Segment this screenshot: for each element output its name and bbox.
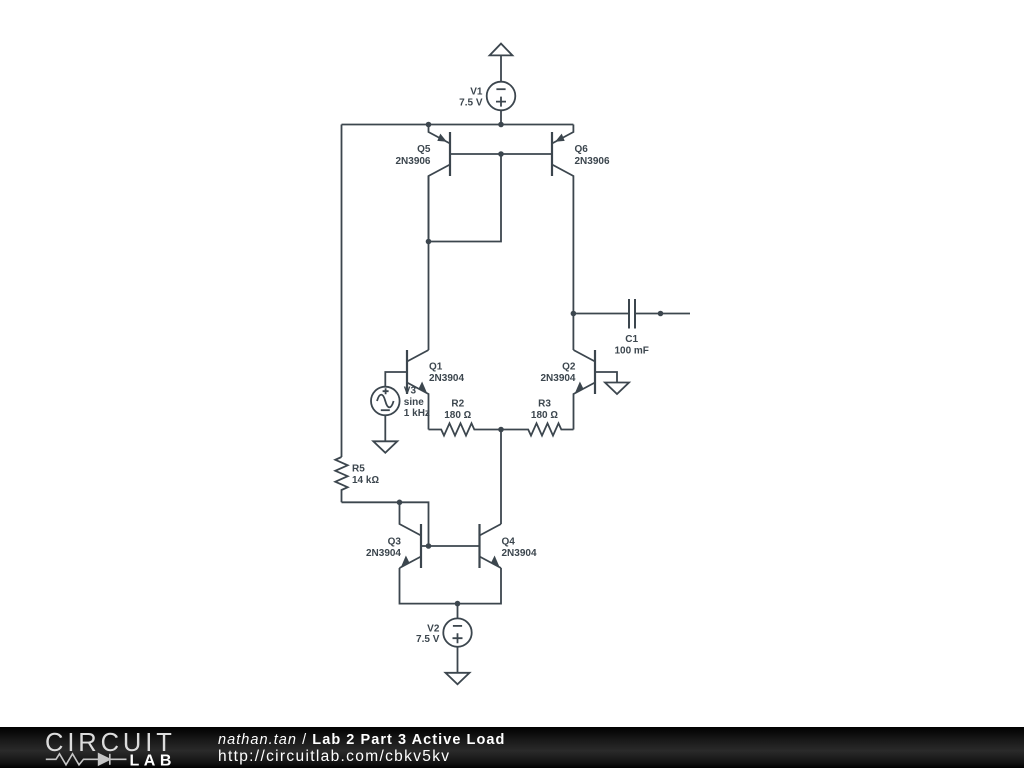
svg-text:2N3904: 2N3904: [366, 548, 401, 559]
svg-text:V1: V1: [470, 87, 483, 98]
transistor Q2: [574, 350, 596, 430]
svg-text:Q3: Q3: [388, 536, 402, 547]
svg-text:sine: sine: [404, 397, 424, 408]
svg-text:2N3904: 2N3904: [502, 548, 537, 559]
wire mirror emitters: [400, 568, 502, 604]
footer url text: [218, 748, 450, 766]
svg-text:R5: R5: [352, 464, 365, 475]
svg-text:100 mF: 100 mF: [614, 345, 648, 356]
wire Q3 base to Q4 base: [421, 545, 480, 547]
node output terminal: [658, 311, 664, 317]
junction rail / V1: [498, 122, 504, 128]
wire top rail: [342, 124, 574, 126]
svg-text:LAB: LAB: [130, 752, 176, 768]
logo resistor-diode symbol: [46, 754, 127, 765]
junction Q5-Q6 base tap: [498, 151, 504, 157]
junction R2-R3 / Q4 collector: [498, 427, 504, 433]
ground near Q2: [605, 383, 629, 395]
svg-text:180 Ω: 180 Ω: [531, 410, 558, 421]
resistor R3: [501, 423, 574, 435]
transistor Q3: [400, 502, 422, 568]
svg-text:Q6: Q6: [575, 144, 589, 155]
junction rail / Q5 emitter: [426, 122, 432, 128]
wire R junction to Q4: [500, 430, 502, 525]
svg-text:7.5 V: 7.5 V: [416, 634, 440, 645]
svg-text:1 kHz: 1 kHz: [404, 408, 430, 419]
voltage source V3: [371, 372, 407, 441]
junction emitter bus / V2: [455, 601, 461, 607]
ground below V3: [373, 441, 397, 453]
wire R5 to mirror: [342, 502, 429, 546]
transistor Q4: [480, 524, 502, 568]
svg-text:C1: C1: [625, 334, 638, 345]
svg-text:2N3906: 2N3906: [395, 156, 430, 167]
voltage source V1: [487, 82, 516, 125]
junction Q5 collector tie: [426, 239, 432, 245]
svg-text:R3: R3: [538, 399, 551, 410]
svg-text:2N3904: 2N3904: [429, 373, 464, 384]
wire Q5 base to Q6 base: [450, 153, 552, 155]
transistor Q5: [429, 125, 451, 242]
ground below V2: [446, 673, 470, 685]
capacitor C1: [573, 299, 690, 329]
resistor R2: [429, 423, 502, 435]
svg-text:V3: V3: [404, 385, 417, 396]
svg-text:14 kΩ: 14 kΩ: [352, 475, 379, 486]
junction Q6 collector / C1: [571, 311, 577, 317]
footer bar: [0, 727, 1024, 768]
wire Q5 collector down to Q1: [428, 176, 430, 350]
transistor Q6: [552, 125, 573, 351]
component labels: [352, 87, 649, 645]
svg-text:V2: V2: [427, 624, 440, 635]
svg-text:180 Ω: 180 Ω: [444, 410, 471, 421]
svg-text:2N3906: 2N3906: [575, 156, 610, 167]
wire left rail: [341, 125, 343, 458]
footer title text: [218, 732, 505, 748]
wire Q2 base to ground: [595, 372, 617, 383]
svg-text:2N3904: 2N3904: [540, 373, 575, 384]
wire diode connection Q5: [429, 154, 502, 242]
resistor R5: [335, 457, 347, 502]
junction R5 / Q3 collector: [397, 500, 403, 506]
voltage source V2: [443, 604, 471, 673]
transistor Q1: [407, 350, 429, 430]
svg-text:7.5 V: 7.5 V: [459, 98, 483, 109]
svg-text:R2: R2: [451, 399, 464, 410]
junction Q3-Q4 base tap: [426, 543, 432, 549]
svg-text:Q5: Q5: [417, 144, 431, 155]
svg-text:Q1: Q1: [429, 362, 443, 373]
svg-text:Q4: Q4: [502, 536, 516, 547]
svg-text:Q2: Q2: [562, 362, 576, 373]
power flag VCC: [490, 44, 513, 82]
